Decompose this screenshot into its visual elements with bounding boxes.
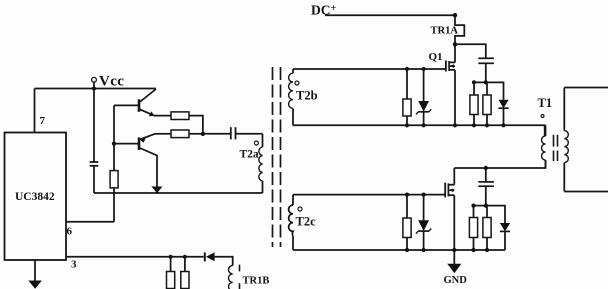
svg-text:TR1B: TR1B: [243, 276, 270, 287]
junction node at R8: [471, 204, 475, 208]
junction node at C3: [484, 80, 488, 84]
wire C2 to T2a: [236, 133, 263, 135]
junction bus at D1: [422, 123, 426, 127]
wire snubber node (upper): [474, 82, 504, 99]
transistor Q1 (N-MOSFET): [429, 44, 456, 125]
svg-text:T2a: T2a: [240, 149, 259, 161]
junction bus at D2: [501, 123, 505, 127]
junction GND bus at R8: [471, 248, 475, 252]
transistor Q3 (upper NPN of totem pole): [114, 89, 156, 116]
transistor Q2 (N-MOSFET, lower): [445, 168, 454, 250]
svg-text:T2b: T2b: [296, 89, 318, 103]
wire D5 to TR1B: [215, 257, 233, 266]
capacitor C2 (coupling): [231, 127, 236, 139]
resistor R6 (snubber): [483, 82, 491, 125]
wire pin 3: [66, 256, 204, 258]
winding TR1B (current transformer secondary): [229, 265, 270, 289]
wire Vcc rail: [35, 88, 157, 90]
svg-text:6: 6: [67, 226, 73, 238]
wire source bus (T2b bottom): [293, 125, 545, 136]
wire driver output to C2: [203, 133, 231, 135]
junction Q1 drain node: [453, 42, 457, 46]
junction pin3 at R10: [169, 255, 173, 259]
resistor R8 (snubber, lower): [469, 206, 477, 250]
junction lower drain at C4: [484, 166, 488, 170]
op-amp U1 UC3842 IC body: [5, 133, 67, 261]
resistor R1 (bias, vertical): [110, 171, 118, 222]
junction GND bus at Q2 source: [452, 248, 456, 252]
junction T2c top at D3: [422, 193, 426, 197]
junction driver output: [201, 132, 205, 136]
capacitor C1 (Vcc decoupling): [90, 89, 99, 194]
capacitor C4 (snubber, lower): [478, 168, 494, 206]
svg-text:3: 3: [71, 259, 77, 271]
wire pin 6: [66, 221, 114, 223]
winding T2c (secondary, lower): [289, 195, 316, 250]
junction T2c top at R7: [405, 193, 409, 197]
ground GND symbol: [444, 250, 468, 286]
junction pin3 at R11: [183, 255, 187, 259]
wire T2b top (gate drive to Q1): [293, 68, 445, 70]
junction bus at R5: [472, 123, 476, 127]
wire base line: [113, 105, 115, 170]
zener D1 (Q1 gate clamp): [416, 69, 431, 125]
wire lower drain (Q2 to T1 bottom): [454, 160, 545, 168]
wire GND bus (T2c bottom): [293, 249, 505, 251]
wire snubber node (lower): [474, 206, 506, 223]
junction Vcc rail: [92, 86, 96, 90]
transformer T1 core: [554, 135, 558, 161]
node Vcc terminal: [92, 74, 125, 90]
wire driver return rail: [94, 192, 263, 194]
svg-text:TR1A: TR1A: [431, 26, 459, 37]
winding T2b (secondary, upper): [289, 69, 318, 125]
transistor Q4 (lower PNP of totem pole): [114, 134, 163, 193]
diode D4 (snubber, lower): [500, 223, 510, 250]
wire DC+ rail: [311, 3, 455, 18]
junction GND bus at R9: [485, 248, 489, 252]
svg-text:Vcc: Vcc: [99, 74, 124, 90]
winding T2a (primary of gate-drive transformer): [240, 134, 263, 193]
wire drain node to snubber C3: [455, 44, 486, 58]
diode D5 (pin 3, pointing left): [205, 252, 215, 261]
resistor R7 (Q2 gate): [403, 195, 411, 250]
transformer T1 left winding: [538, 96, 553, 168]
svg-text:T1: T1: [538, 96, 553, 110]
svg-text:GND: GND: [444, 275, 468, 286]
transformer T1 right winding: [564, 88, 568, 192]
resistor R9 (snubber, lower): [483, 206, 491, 250]
junction GND bus at R7: [405, 248, 409, 252]
resistor R5 (snubber): [470, 82, 478, 125]
junction T2b top at R4: [405, 67, 409, 71]
resistor R10 (pin 3 sense): [167, 257, 175, 289]
resistor R4 (Q1 gate): [403, 69, 411, 125]
junction bus at R4: [405, 123, 409, 127]
junction node at C4: [484, 204, 488, 208]
capacitor C3 (snubber): [478, 58, 494, 82]
svg-text:7: 7: [40, 115, 46, 127]
svg-text:UC3842: UC3842: [15, 191, 55, 203]
resistor R3 (lower, horizontal): [155, 130, 203, 138]
load box (output): [564, 88, 608, 192]
junction T2b top at D1: [422, 67, 426, 71]
wire T2c top (gate drive to Q2): [293, 194, 445, 196]
ground IC (arrow below UC3842): [28, 260, 42, 289]
resistor R11 (pin 3 sense): [181, 257, 189, 289]
transformer TR1A primary (loop in drain lead): [431, 15, 465, 44]
junction node at R5: [472, 80, 476, 84]
resistor R2 (upper, horizontal): [154, 112, 203, 134]
wire pin 7 to Vcc rail: [34, 89, 36, 133]
transformer T2 core (dashed): [273, 67, 281, 247]
svg-text:Q1: Q1: [429, 51, 443, 63]
junction bus at R6: [485, 123, 489, 127]
svg-text:T2c: T2c: [296, 215, 317, 229]
diode D2 (snubber): [498, 100, 508, 126]
zener D3 (Q2 gate clamp): [416, 195, 431, 250]
junction base line: [112, 142, 116, 146]
junction DC+ at TR1A: [453, 13, 457, 17]
junction GND bus at D3: [422, 248, 426, 252]
junction bus at Q1 source: [453, 123, 457, 127]
